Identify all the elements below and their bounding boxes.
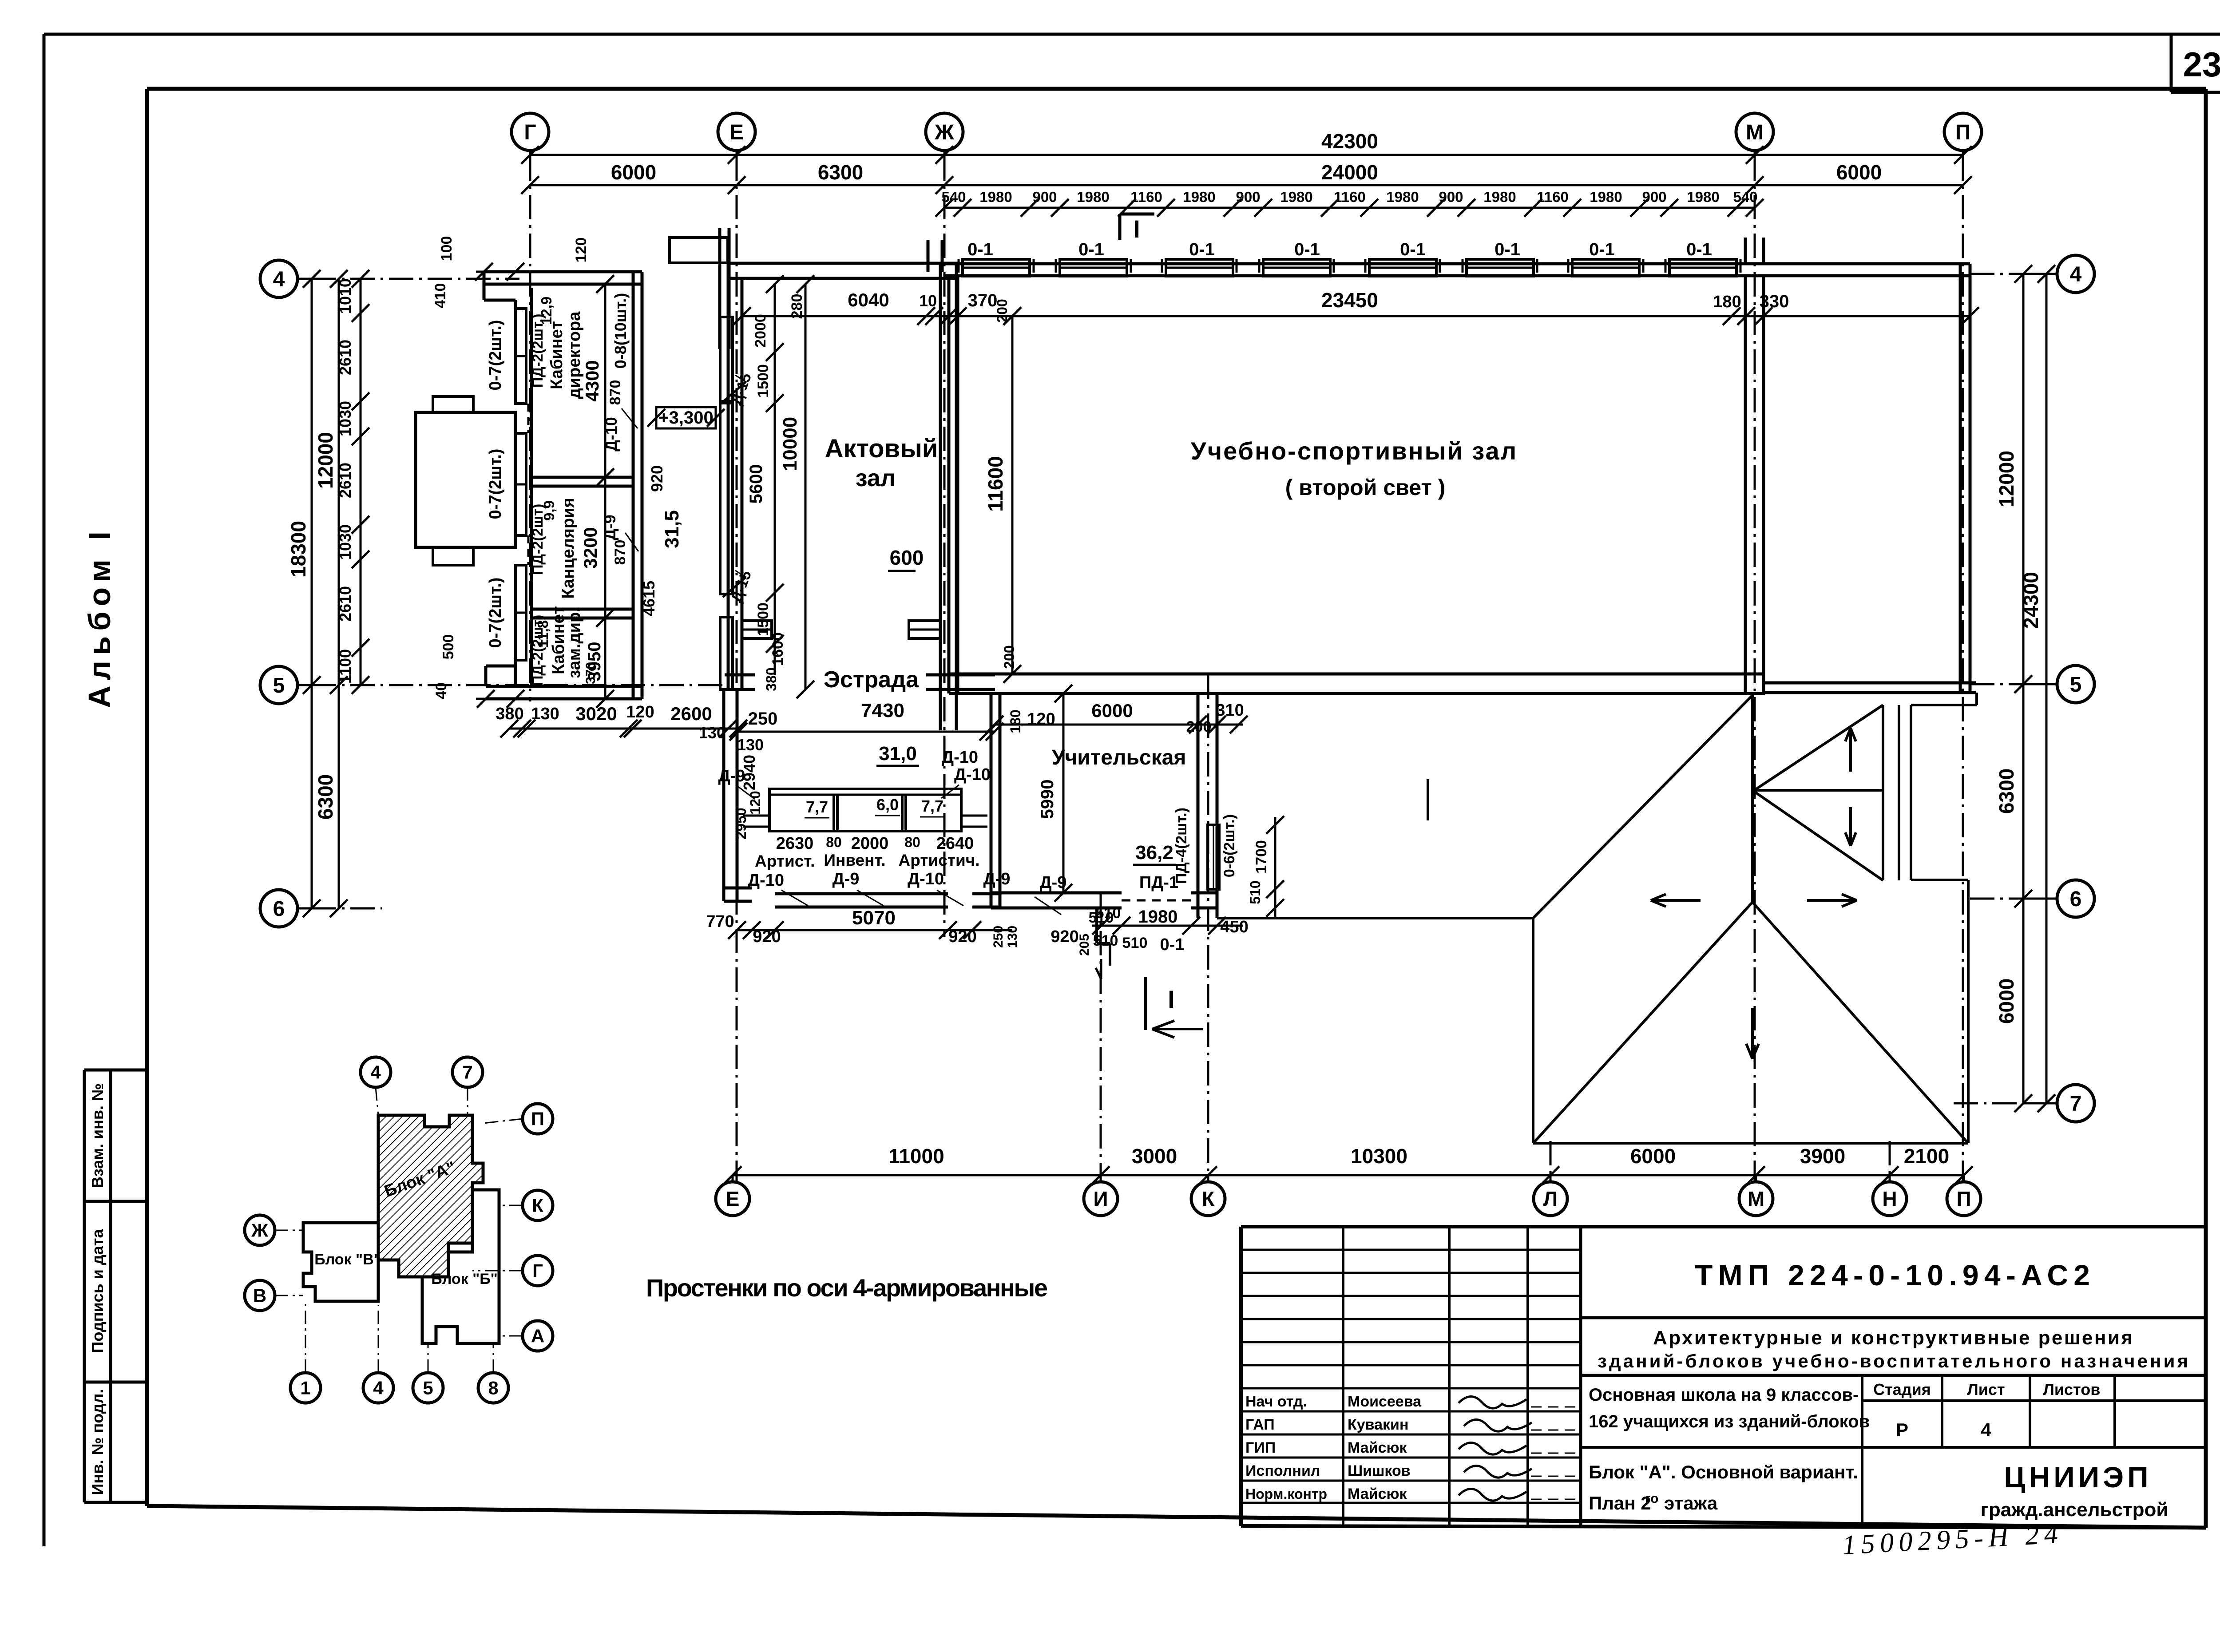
svg-text:2610: 2610: [336, 586, 354, 622]
key plan axis А: [499, 1321, 553, 1351]
sports hall south wall: [949, 674, 1764, 693]
svg-text:510: 510: [1089, 909, 1114, 926]
teachers room east wall (axis К): [1198, 693, 1217, 918]
svg-text:Канцелярия: Канцелярия: [559, 498, 578, 598]
wing room depth chain 4300/3200/3950: [580, 275, 614, 708]
sports hall west wall: [949, 276, 958, 693]
door label Д-9 teachers: [1035, 873, 1066, 915]
title block outline: [1241, 1227, 2206, 1528]
svg-text:4300: 4300: [582, 360, 603, 401]
svg-text:4: 4: [1981, 1419, 1991, 1440]
svg-text:310: 310: [1216, 701, 1244, 720]
svg-text:1980: 1980: [1077, 189, 1109, 205]
wall mark above roof: [1427, 779, 1429, 820]
svg-text:Актовый: Актовый: [825, 434, 938, 463]
svg-text:ЦНИИЭП: ЦНИИЭП: [2004, 1461, 2152, 1494]
svg-text:Учебно-спортивный зал: Учебно-спортивный зал: [1191, 437, 1518, 465]
axis Ж vertical line: [943, 156, 946, 937]
svg-text:0-1: 0-1: [1189, 240, 1215, 259]
svg-text:450: 450: [1220, 918, 1248, 936]
teachers room bottom wall: [991, 893, 1217, 908]
svg-text:11000: 11000: [888, 1145, 944, 1168]
svg-text:1980: 1980: [1138, 907, 1178, 927]
svg-text:Нач отд.: Нач отд.: [1245, 1393, 1307, 1410]
svg-text:Блок "Б": Блок "Б": [431, 1271, 498, 1288]
svg-text:1980: 1980: [1687, 189, 1719, 205]
svg-text:900: 900: [1642, 189, 1666, 205]
svg-text:1700: 1700: [1253, 840, 1270, 874]
svg-text:31,5: 31,5: [661, 510, 683, 548]
artist door labels: [748, 870, 1010, 906]
svg-text:3000: 3000: [1132, 1145, 1177, 1168]
dashed rows right of signatures: [1531, 1407, 1577, 1499]
roof dormer: [1752, 705, 1899, 880]
svg-text:7: 7: [2070, 1092, 2082, 1116]
axis Г vertical line: [529, 156, 531, 701]
svg-text:7,7: 7,7: [921, 797, 943, 815]
svg-text:Норм.контр: Норм.контр: [1245, 1486, 1327, 1502]
svg-text:100: 100: [438, 236, 455, 261]
hall west small dims 2000/1500/5600/1500/1600/380: [746, 275, 786, 691]
axis 5 right circle: [2023, 666, 2094, 703]
svg-text:Подпись и дата: Подпись и дата: [88, 1229, 107, 1353]
stage area 31,0: [876, 743, 919, 766]
svg-text:Артистич.: Артистич.: [899, 851, 980, 869]
svg-text:10000: 10000: [779, 417, 801, 471]
top dimension line 42300: [521, 130, 1972, 164]
roof ridge: [1751, 695, 1754, 902]
stage left rotated dims 130/2940/120: [733, 736, 764, 840]
svg-text:2940: 2940: [740, 755, 758, 790]
svg-text:1500: 1500: [755, 602, 772, 636]
svg-text:205: 205: [1077, 934, 1092, 956]
hall west wall: [728, 263, 742, 689]
svg-text:200: 200: [994, 299, 1010, 322]
axis М vertical line: [1754, 156, 1756, 1181]
svg-text:М: М: [1746, 121, 1764, 144]
svg-text:7: 7: [462, 1062, 472, 1083]
svg-text:Г: Г: [524, 121, 536, 144]
svg-text:0-1: 0-1: [1589, 240, 1615, 259]
svg-text:Стадия: Стадия: [1873, 1380, 1931, 1398]
svg-text:Д-9: Д-9: [832, 870, 860, 888]
key plan axis 4: [361, 1057, 391, 1115]
roof west eave: [1532, 918, 1534, 1143]
left wing partition 2: [531, 609, 633, 618]
svg-text:0-1: 0-1: [1160, 935, 1185, 954]
svg-text:Д-10: Д-10: [908, 870, 944, 888]
left wing bottom wall: [486, 686, 642, 699]
svg-text:4: 4: [373, 1378, 384, 1398]
svg-text:200: 200: [1186, 718, 1212, 735]
window labels 0-1: [967, 240, 1712, 259]
sidebar stamp boxes: [84, 1070, 146, 1502]
svg-text:1160: 1160: [1537, 189, 1569, 205]
roof SW hip: [1534, 902, 1752, 1142]
axis И bottom circle: [1084, 1175, 1118, 1216]
svg-text:80: 80: [826, 834, 842, 850]
svg-text:гражд.ансельстрой: гражд.ансельстрой: [1981, 1499, 2168, 1521]
svg-text:130: 130: [737, 736, 764, 754]
corridor window label 0-8: [611, 293, 630, 369]
svg-text:18300: 18300: [287, 521, 310, 578]
roof north eave: [1217, 917, 1533, 919]
title block left rows: [1241, 1250, 1581, 1503]
svg-text:280: 280: [789, 294, 805, 319]
wing labels 0-7 (2шт.): [486, 320, 505, 648]
axis Л vertical line: [1550, 1141, 1552, 1181]
svg-text:370: 370: [968, 291, 998, 310]
teachers room inner dim 5990: [1038, 685, 1072, 902]
svg-text:ПД-4(2шт.): ПД-4(2шт.): [1173, 808, 1190, 884]
svg-text:Ж: Ж: [934, 121, 954, 144]
entrance porch: [416, 396, 515, 565]
svg-text:42300: 42300: [1321, 130, 1378, 153]
key plan block A hatched: [378, 1115, 483, 1277]
svg-text:23: 23: [2183, 45, 2220, 84]
svg-text:920: 920: [948, 927, 976, 946]
axis Е bottom circle: [716, 1175, 749, 1216]
axis 5 horizontal line left: [312, 684, 728, 686]
svg-text:920: 920: [1051, 927, 1078, 946]
svg-text:7430: 7430: [861, 700, 904, 721]
svg-text:4: 4: [273, 268, 285, 291]
svg-text:0-1: 0-1: [1400, 240, 1426, 259]
svg-text:6300: 6300: [1995, 769, 2018, 814]
hall top wall: [728, 263, 958, 278]
left wing west windows 0-7: [515, 309, 526, 660]
axis Е vertical line: [736, 156, 738, 1181]
artist block west wall: [724, 689, 737, 901]
svg-text:Кабинет: Кабинет: [547, 321, 566, 389]
teachers room text: [1052, 746, 1186, 769]
svg-text:1980: 1980: [979, 189, 1012, 205]
wall step below teachers door: [1096, 908, 1110, 979]
svg-text:1980: 1980: [1590, 189, 1622, 205]
window module dimension chain 540/1980/900...: [936, 189, 1764, 217]
svg-text:Л: Л: [1543, 1187, 1558, 1210]
sheet name: [1589, 1462, 1858, 1513]
section mark I bottom: [1146, 977, 1203, 1038]
room label Кабинет директора: [529, 297, 584, 399]
axis М wall stub above hall: [1745, 238, 1764, 264]
note Простенки по оси 4-армированные: [646, 1274, 1048, 1302]
svg-text:К: К: [532, 1195, 543, 1216]
svg-text:250: 250: [991, 926, 1006, 948]
svg-text:36,2: 36,2: [1135, 842, 1173, 864]
key plan axis 4: [363, 1305, 393, 1403]
sports hall east wall: [1745, 276, 1764, 695]
handwritten inventory number: [1842, 1519, 2061, 1561]
svg-text:( второй свет ): ( второй свет ): [1285, 475, 1446, 500]
+3.300 level mark: [647, 407, 725, 428]
key plan labels: [314, 1158, 498, 1288]
svg-text:5: 5: [423, 1378, 433, 1398]
axis 4 right circle: [2023, 255, 2094, 293]
dimension 23450 row: [949, 289, 1979, 325]
svg-text:3200: 3200: [580, 527, 601, 568]
title separator 2: [1581, 1374, 2206, 1377]
svg-text:900: 900: [1439, 189, 1463, 205]
project name: [1589, 1385, 1870, 1431]
svg-text:1010: 1010: [336, 278, 354, 314]
wing door labels Д-10 Д-9: [601, 380, 638, 565]
svg-text:130: 130: [699, 724, 725, 742]
key plan block V: [303, 1223, 378, 1301]
svg-text:120: 120: [573, 238, 590, 263]
svg-text:1: 1: [300, 1378, 310, 1398]
title block verticals: [1343, 1227, 1581, 1528]
svg-text:Д-9: Д-9: [983, 870, 1011, 888]
svg-text:2630: 2630: [776, 834, 814, 853]
svg-text:0-6(2шт.): 0-6(2шт.): [1221, 814, 1238, 877]
svg-text:24000: 24000: [1321, 161, 1378, 184]
svg-text:2610: 2610: [336, 463, 354, 498]
svg-text:500: 500: [440, 634, 457, 660]
svg-text:Архитектурные и конструктивные: Архитектурные и конструктивные решения: [1653, 1327, 2133, 1349]
artist bottom dim 5070: [706, 907, 1020, 948]
svg-text:23450: 23450: [1321, 289, 1378, 312]
svg-text:зал: зал: [856, 465, 896, 491]
svg-text:130: 130: [1005, 926, 1020, 948]
svg-text:900: 900: [1032, 189, 1057, 205]
signature squiggles: [1459, 1396, 1532, 1501]
svg-text:го: го: [1645, 1491, 1658, 1506]
svg-text:11600: 11600: [984, 456, 1007, 511]
svg-text:8: 8: [488, 1378, 498, 1398]
svg-text:12,9: 12,9: [538, 297, 555, 325]
hall west windows: [720, 317, 733, 689]
teachers room top dim 6000/310/200: [986, 700, 1248, 735]
svg-text:870: 870: [607, 380, 624, 405]
svg-text:3020: 3020: [575, 703, 617, 724]
left dimension line 18300: [287, 270, 321, 917]
svg-text:Блок "В": Блок "В": [314, 1251, 381, 1268]
svg-text:Д-10: Д-10: [954, 765, 991, 784]
svg-text:2640: 2640: [936, 834, 974, 853]
axis К vertical line: [1207, 675, 1209, 1181]
svg-text:Эстрада: Эстрада: [824, 667, 919, 693]
left wing west wall dashed door strips: [515, 300, 528, 686]
sidebar label Инв. № подл.: [88, 1389, 107, 1495]
svg-text:31,0: 31,0: [879, 743, 917, 765]
svg-text:Н: Н: [1882, 1187, 1897, 1210]
svg-text:6000: 6000: [1630, 1145, 1676, 1168]
svg-text:6000: 6000: [611, 161, 656, 184]
svg-text:ПД-1: ПД-1: [1139, 873, 1178, 892]
svg-text:Лист: Лист: [1967, 1380, 2005, 1398]
wing bottom dimension row 380/130/3020/120/2600: [496, 703, 747, 742]
svg-text:4: 4: [370, 1062, 381, 1083]
svg-text:Моисеева: Моисеева: [1348, 1393, 1422, 1410]
svg-text:6000: 6000: [1091, 700, 1133, 721]
svg-text:ГИП: ГИП: [1245, 1439, 1276, 1456]
axis 6 left circle: [260, 890, 312, 927]
svg-text:870: 870: [612, 540, 629, 565]
svg-text:Основная школа на 9 классов-: Основная школа на 9 классов-: [1589, 1385, 1859, 1405]
svg-text:Е: Е: [726, 1187, 740, 1210]
svg-text:I: I: [1168, 985, 1175, 1013]
key plan axis К: [499, 1190, 553, 1220]
svg-text:Взам. инв. №: Взам. инв. №: [88, 1083, 107, 1188]
sports hall window sills: [959, 259, 1740, 276]
svg-text:1030: 1030: [336, 524, 354, 560]
svg-text:1160: 1160: [1334, 189, 1366, 205]
svg-text:5: 5: [273, 674, 285, 697]
bottom dimension line 11000/3000/10300/6000/3900/2100: [724, 1145, 1973, 1184]
svg-text:М: М: [1748, 1187, 1764, 1210]
svg-text:6300: 6300: [314, 774, 337, 820]
svg-text:11,8: 11,8: [535, 620, 551, 648]
axis 5 right stub: [1970, 683, 2023, 685]
left wing east wall: [633, 272, 642, 699]
axis П bottom circle: [1947, 1175, 1981, 1216]
teachers room west wall: [991, 693, 1000, 908]
dims 920/205/510 near И axis: [1051, 909, 1118, 956]
dormer arrow down: [1845, 807, 1856, 846]
key plan axis В: [245, 1280, 303, 1311]
left wing parapet step top: [484, 272, 515, 300]
svg-text:2000: 2000: [752, 314, 769, 348]
axis 4 right stub: [1970, 273, 2023, 275]
svg-text:5600: 5600: [746, 464, 766, 504]
svg-text:4: 4: [2070, 263, 2082, 286]
axis Ж top circle: [926, 113, 963, 156]
svg-text:6000: 6000: [1995, 979, 2018, 1024]
key plan axis Ж: [245, 1215, 303, 1245]
artist partition box: [743, 789, 987, 831]
title code ТМП 224-0-10.94-АС2: [1695, 1259, 2090, 1291]
axis Ж wall stub above hall: [928, 240, 942, 272]
artist room names: [755, 851, 979, 870]
key plan axis 7: [452, 1057, 483, 1115]
hall top dim row 280/6040/10/370: [733, 289, 1021, 325]
svg-text:180: 180: [1007, 709, 1023, 733]
svg-text:200: 200: [1001, 645, 1017, 669]
svg-text:Д-10: Д-10: [602, 417, 620, 452]
svg-text:5990: 5990: [1038, 780, 1057, 819]
left dimension line 12000/6300: [314, 270, 348, 917]
svg-text:770: 770: [706, 912, 734, 931]
east facade wall: [1960, 264, 1970, 693]
sidebar label Подпись и дата: [88, 1229, 107, 1353]
svg-text:6300: 6300: [818, 161, 863, 184]
svg-text:6: 6: [2070, 887, 2082, 911]
svg-text:380: 380: [763, 667, 779, 691]
svg-text:План 2: План 2: [1589, 1493, 1651, 1513]
svg-text:I: I: [1133, 215, 1140, 243]
svg-text:2000: 2000: [851, 834, 889, 853]
svg-text:120: 120: [626, 703, 654, 721]
svg-text:ТМП 224-0-10.94-АС2: ТМП 224-0-10.94-АС2: [1695, 1259, 2090, 1291]
door Д-15 lower swing: [723, 568, 755, 605]
svg-text:Д-9: Д-9: [1040, 873, 1067, 892]
corridor dims 920/31,5/4615: [640, 465, 683, 616]
svg-text:0-1: 0-1: [967, 240, 993, 259]
svg-text:0-7(2шт.): 0-7(2шт.): [486, 320, 505, 391]
svg-text:1980: 1980: [1386, 189, 1419, 205]
svg-text:6,0: 6,0: [876, 796, 899, 814]
svg-text:6040: 6040: [848, 289, 889, 310]
svg-text:330: 330: [1760, 292, 1789, 311]
svg-text:10: 10: [919, 292, 937, 310]
svg-text:510: 510: [1093, 932, 1118, 949]
wing top small dims 100/410/120: [432, 236, 590, 309]
svg-text:1160: 1160: [1130, 189, 1162, 205]
axis Г top circle: [511, 113, 549, 156]
svg-text:ГАП: ГАП: [1245, 1416, 1275, 1433]
sports hall text: [1191, 437, 1518, 500]
svg-text:120: 120: [1027, 710, 1055, 729]
key plan axis 1: [290, 1301, 321, 1403]
svg-text:80: 80: [904, 834, 920, 850]
svg-text:Учительская: Учительская: [1052, 746, 1186, 769]
key plan axis Г: [472, 1256, 553, 1286]
svg-text:П: П: [1955, 121, 1971, 144]
teachers door dims 510/1980/450: [1092, 905, 1249, 954]
axis 5 left circle: [260, 666, 312, 704]
svg-text:410: 410: [432, 283, 449, 309]
hall inner dim 10000: [779, 275, 814, 698]
teachers room window ПД-4: [1208, 825, 1219, 889]
svg-text:Майсюк: Майсюк: [1348, 1486, 1407, 1502]
svg-text:0-7(2шт.): 0-7(2шт.): [486, 449, 505, 519]
wing bottom small dims 500/40: [433, 634, 524, 708]
sports hall north window wall: [944, 264, 1970, 276]
svg-text:10300: 10300: [1351, 1145, 1407, 1168]
svg-text:5070: 5070: [852, 907, 896, 929]
svg-text:Р: Р: [1896, 1419, 1908, 1440]
svg-text:0-1: 0-1: [1078, 240, 1104, 259]
roof NW hip: [1533, 695, 1752, 918]
svg-text:Блок "А". Основной вариант.: Блок "А". Основной вариант.: [1589, 1462, 1858, 1482]
roof east eave: [1967, 880, 1970, 1143]
svg-text:П: П: [531, 1109, 544, 1129]
key plan axis 5: [413, 1343, 443, 1403]
svg-text:5: 5: [2070, 673, 2082, 697]
stage piers: [742, 621, 940, 638]
axis Л bottom circle: [1534, 1175, 1567, 1216]
svg-text:6000: 6000: [1836, 161, 1882, 184]
svg-text:2610: 2610: [336, 340, 354, 375]
axis М bottom circle: [1739, 1175, 1773, 1216]
svg-text:0-1: 0-1: [1686, 240, 1712, 259]
roof slope arrow down: [1746, 1008, 1759, 1059]
artist block bottom walls: [724, 888, 1000, 907]
svg-text:Г: Г: [532, 1260, 543, 1281]
svg-text:1100: 1100: [336, 649, 354, 684]
axis И vertical line: [1100, 892, 1102, 1181]
svg-text:2100: 2100: [1904, 1145, 1949, 1168]
svg-text:12000: 12000: [1995, 451, 2018, 507]
svg-text:В: В: [253, 1285, 266, 1306]
svg-text:250: 250: [748, 709, 778, 729]
roof SE hip: [1752, 902, 1967, 1142]
svg-text:1980: 1980: [1483, 189, 1516, 205]
title separator 1: [1581, 1316, 2206, 1319]
axis Н vertical line: [1889, 1141, 1891, 1181]
top dimension line 6000/6300/24000/6000: [521, 161, 1972, 194]
svg-text:Кувакин: Кувакин: [1348, 1416, 1408, 1433]
axis 6 right circle: [2023, 880, 2094, 917]
axis М top circle: [1736, 113, 1773, 156]
svg-text:920: 920: [753, 927, 781, 946]
left wing parapet step bottom: [486, 666, 515, 686]
svg-text:6: 6: [273, 897, 285, 921]
roof south eave: [1533, 1142, 1968, 1145]
svg-text:2950: 2950: [733, 808, 749, 839]
title description: [1598, 1327, 2188, 1371]
